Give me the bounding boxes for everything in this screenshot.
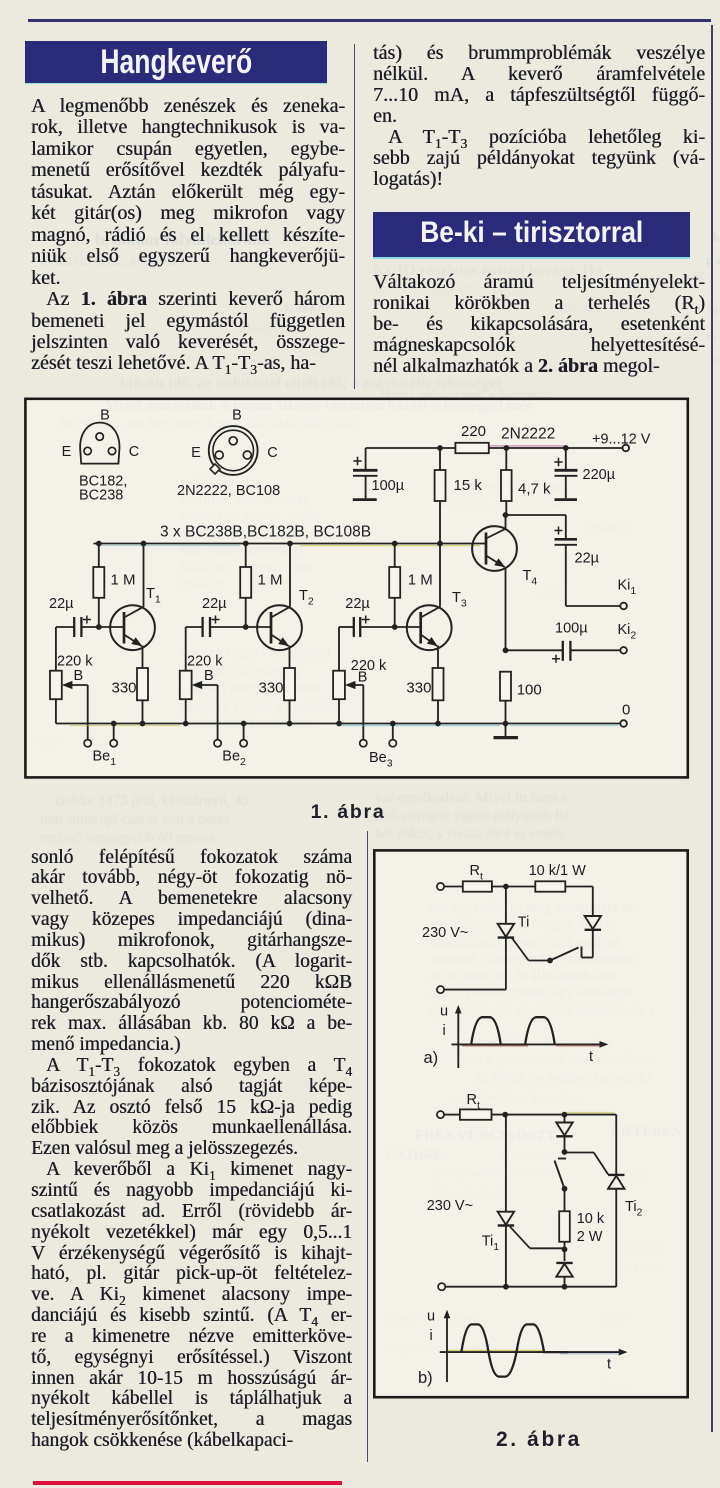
junction dots on summing rail	[96, 541, 443, 547]
resistor 10 k/1 W (a)	[529, 863, 587, 892]
terminal +9...12 V	[592, 432, 651, 452]
resistor 10 k / 2 W (b)	[559, 1189, 605, 1245]
terminal a top	[437, 883, 463, 890]
transistor list label 3 x BC238B,BC182B, BC108B	[160, 524, 371, 541]
page right edge rule	[711, 25, 713, 1432]
wire: +supply rail	[366, 446, 622, 448]
figure 2 frame	[374, 850, 687, 1397]
thyristor Ti (a)	[498, 887, 530, 990]
wire: top rail (b)	[492, 1112, 617, 1175]
svg-text:+9...12 V: +9...12 V	[592, 432, 651, 448]
svg-text:a): a)	[424, 1049, 439, 1067]
resistor 100 (T4 emitter load)	[500, 672, 542, 724]
potentiometer 220k B (stage 3)	[333, 627, 387, 724]
figure 1 frame	[25, 399, 687, 778]
waveform a half-sine humps	[471, 1017, 555, 1044]
TO-92 package label BC182, BC238	[79, 474, 127, 504]
thyristor Ti1 (b left, down)	[482, 1115, 514, 1287]
wire: gate feed to Ti1	[510, 1227, 565, 1249]
diode (a right branch)	[585, 916, 601, 958]
junction dots on supply rail	[437, 445, 569, 451]
capacitor 22u (stage 3 input coupling)	[345, 596, 370, 637]
svg-text:C: C	[267, 445, 277, 461]
svg-text:330: 330	[406, 680, 431, 697]
terminal b bottom + rail	[438, 1283, 616, 1290]
capacitor 22u (Ki1 coupling)	[555, 515, 600, 606]
svg-text:22µ: 22µ	[49, 596, 74, 612]
transistor T3	[407, 590, 467, 650]
svg-text:220: 220	[461, 423, 486, 440]
svg-text:B: B	[74, 668, 84, 684]
transistor T1	[110, 586, 161, 650]
terminal 0	[620, 702, 630, 727]
right column upper text	[373, 43, 705, 190]
wire + terminal Ki2	[571, 622, 637, 654]
capacitor 22u (stage 2 input coupling)	[202, 596, 227, 637]
wire: T3 collector to rail	[439, 544, 441, 607]
resistor 1M (stage 1 feedback)	[93, 544, 135, 628]
wire: stage 1 base wire	[56, 624, 124, 630]
label 230 V~ (a)	[422, 925, 468, 941]
potentiometer 220k B (stage 2)	[180, 627, 223, 724]
wire: collector summing rail (to T4 base)	[94, 544, 487, 546]
potentiometer 220k B (stage 1)	[50, 627, 93, 724]
ground symbol	[494, 724, 519, 738]
terminal Be1 (input)	[84, 685, 117, 768]
resistor 1M (stage 3 feedback)	[389, 544, 433, 628]
svg-text:220µ: 220µ	[583, 467, 616, 483]
wire: T2 collector to rail	[289, 544, 291, 607]
svg-text:2N2222: 2N2222	[501, 426, 555, 443]
svg-text:E: E	[62, 444, 72, 460]
label 230 V~ (b)	[427, 1198, 473, 1214]
terminal Be2 (input)	[214, 685, 247, 768]
switch (a)	[529, 947, 593, 964]
svg-text:i: i	[443, 1023, 446, 1039]
resistor 15 k	[435, 448, 483, 544]
svg-text:100µ: 100µ	[372, 478, 405, 494]
resistor 4,7 k	[501, 448, 551, 515]
svg-text:100: 100	[517, 682, 542, 699]
TO-18 package outline (2N2222, BC108)	[191, 408, 278, 475]
transistor T4 (2N2222 emitter follower)	[472, 526, 537, 587]
TO-92 package outline (BC182, BC238)	[62, 408, 140, 464]
caption 2. abra	[491, 1428, 587, 1452]
left column upper text	[31, 96, 345, 375]
red bar bottom	[33, 1481, 342, 1486]
svg-text:b): b)	[418, 1369, 433, 1387]
wire: 10k to right corner (a)	[565, 887, 593, 917]
wire: T4 collector to 4,7k node	[503, 512, 566, 529]
wire: 10k bottom node (b)	[562, 1242, 568, 1261]
label b)	[418, 1369, 433, 1387]
waveform b full sine	[461, 1324, 568, 1376]
capacitor 220u (supply filter right)	[554, 448, 615, 500]
switch (b)	[555, 1159, 568, 1192]
resistor Rt (b)	[460, 1092, 492, 1120]
terminal b top	[437, 1111, 460, 1118]
wire: 0 rail	[56, 724, 620, 726]
wire: stage 2 base wire	[186, 624, 271, 630]
wire + terminal Ki1	[566, 578, 637, 610]
svg-text:10 k/1 W: 10 k/1 W	[529, 863, 587, 879]
svg-text:22µ: 22µ	[575, 551, 600, 567]
terminal Be3 (input)	[360, 685, 397, 770]
thyristor Ti2 (b right, up)	[608, 1175, 642, 1287]
banner: Hangkevero	[25, 41, 327, 84]
svg-text:22µ: 22µ	[345, 596, 370, 612]
diode D2 (b middle, up)	[556, 1263, 572, 1287]
wire: stage 3 base wire	[339, 624, 421, 630]
wire: Rt to node (a)	[492, 884, 535, 890]
caption 1. abra	[308, 801, 388, 824]
terminal a bottom + wire	[437, 986, 506, 993]
label a)	[424, 1049, 439, 1067]
svg-text:2 W: 2 W	[577, 1229, 603, 1245]
transistor T2	[257, 588, 314, 650]
label 2N2222	[501, 426, 555, 443]
svg-text:0: 0	[622, 702, 630, 719]
svg-text:100µ: 100µ	[555, 621, 588, 637]
left column lower text	[31, 848, 352, 1452]
column divider bottom	[367, 831, 369, 1462]
right column middle text	[373, 272, 705, 377]
wire: T4 emitter down	[503, 568, 509, 654]
svg-text:10 k: 10 k	[577, 1211, 605, 1227]
svg-text:C: C	[129, 444, 139, 460]
wire: T2 emitter down	[289, 646, 291, 669]
svg-text:t: t	[607, 1357, 611, 1373]
bleed-through from reverse page	[95, 230, 271, 250]
TO-18 package label 2N2222, BC108	[177, 483, 280, 499]
resistor Rt (a)	[463, 863, 492, 892]
resistor 220 (series supply)	[455, 423, 488, 453]
waveform b axes	[427, 1309, 628, 1383]
banner: Be-ki tirisztorral	[373, 212, 690, 259]
junction dots on 0 rail	[111, 721, 509, 727]
wire: T3 emitter down	[437, 646, 439, 669]
svg-text:BC238: BC238	[79, 488, 123, 504]
resistor 330 (stage 2 emitter)	[259, 668, 296, 724]
svg-text:220 k: 220 k	[351, 658, 387, 674]
svg-text:E: E	[191, 445, 201, 461]
wire: T1 collector to rail	[143, 544, 145, 607]
capacitor 100u (Ki2 coupling)	[506, 621, 589, 663]
diode D1 (b middle, down)	[556, 1115, 572, 1155]
wire: T1 emitter down	[142, 646, 144, 669]
svg-text:1 M: 1 M	[408, 572, 433, 589]
capacitor 100u (supply filter)	[353, 448, 405, 500]
svg-text:B: B	[358, 670, 368, 686]
capacitor 22u (stage 1 input coupling)	[49, 596, 91, 637]
resistor 330 (stage 3 emitter)	[406, 668, 443, 724]
svg-text:22µ: 22µ	[202, 596, 227, 612]
waveform a axes	[440, 1004, 608, 1069]
top rule	[28, 19, 711, 22]
column divider top	[354, 44, 356, 389]
resistor 330 (stage 1 emitter)	[112, 668, 149, 724]
wire: gate feed to Ti2	[565, 1153, 609, 1175]
svg-text:330: 330	[112, 680, 137, 697]
svg-text:1 M: 1 M	[111, 572, 136, 589]
resistor 1M (stage 2 feedback)	[240, 544, 282, 628]
